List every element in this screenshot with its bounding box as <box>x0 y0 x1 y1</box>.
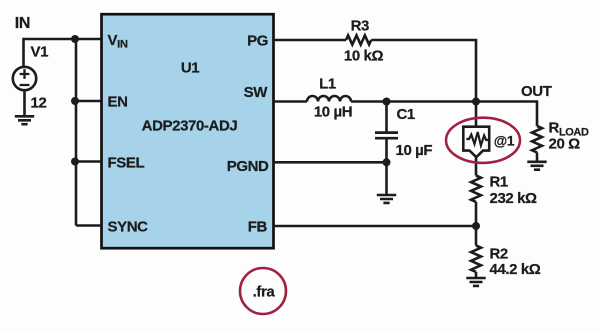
ground R2 <box>466 278 485 286</box>
svg-text:OUT: OUT <box>521 83 552 100</box>
wire L1 to RLOAD corner <box>351 100 537 103</box>
resistor R1 <box>471 176 481 202</box>
junction dot OUT node <box>472 98 480 106</box>
svg-text:@1: @1 <box>494 134 515 149</box>
wire R1 to FB node <box>475 202 478 246</box>
wire FSEL stub <box>76 160 102 163</box>
capacitor C1 <box>375 133 398 139</box>
svg-text:L1: L1 <box>319 76 336 93</box>
wire SYNC stub <box>76 224 102 227</box>
wire corner down to OUT node <box>475 39 478 102</box>
ground C1/PGND <box>377 195 396 203</box>
junction dot FB node <box>472 222 480 230</box>
svg-text:232 kΩ: 232 kΩ <box>490 190 538 207</box>
svg-text:R3: R3 <box>351 18 369 35</box>
wire IN top rail to VIN <box>24 38 102 41</box>
svg-text:10 kΩ: 10 kΩ <box>344 48 384 65</box>
wire OUT corner down to RLOAD <box>536 100 539 126</box>
svg-text:IN: IN <box>15 15 30 32</box>
svg-text:PG: PG <box>247 33 268 50</box>
svg-text:R1: R1 <box>490 174 508 191</box>
wire OUT node down to AC source <box>475 102 478 127</box>
svg-text:V1: V1 <box>31 44 49 61</box>
resistor R2 <box>471 246 481 272</box>
svg-text:U1: U1 <box>181 60 199 77</box>
resistor RLOAD <box>532 126 542 152</box>
AC source waveform <box>466 132 488 146</box>
svg-text:ADP2370-ADJ: ADP2370-ADJ <box>142 118 238 135</box>
wire PGND to C1 node <box>274 161 387 164</box>
junction dot FSEL <box>71 158 79 166</box>
wire EN stub <box>76 100 102 103</box>
red highlight ellipse around @1 source <box>446 118 520 163</box>
junction dot SW/C1 <box>383 98 391 106</box>
svg-text:SYNC: SYNC <box>108 219 149 236</box>
ground V1 <box>15 116 34 124</box>
svg-text:FB: FB <box>248 219 268 236</box>
inductor L1 <box>307 96 351 102</box>
svg-text:20 Ω: 20 Ω <box>549 136 581 153</box>
resistor R3 <box>346 35 371 44</box>
AC injection source @1 box <box>463 127 489 158</box>
svg-text:PGND: PGND <box>227 158 269 175</box>
svg-text:EN: EN <box>108 94 128 111</box>
svg-text:FSEL: FSEL <box>108 155 145 172</box>
wire V1 top vertical <box>22 38 25 67</box>
wire C1 top <box>385 102 388 133</box>
wire R3 to corner <box>371 39 476 42</box>
svg-text:12: 12 <box>31 95 47 112</box>
wire SW to L1 <box>274 100 308 103</box>
op-amp U1 IC body ADP2370-ADJ <box>102 14 274 248</box>
wire left bus <box>75 39 78 226</box>
junction dot EN <box>71 97 79 105</box>
wire C1 bottom to ground <box>385 138 388 195</box>
svg-text:10 µF: 10 µF <box>396 142 433 159</box>
red highlight circle .fra <box>240 268 286 314</box>
junction dot node IN <box>71 35 79 43</box>
wire RLOAD to ground <box>536 152 539 161</box>
wire AC source to R1 <box>475 157 478 175</box>
voltage source V1 <box>13 67 36 90</box>
svg-text:SW: SW <box>244 84 269 101</box>
svg-text:10 µH: 10 µH <box>314 104 352 121</box>
junction dot PGND/C1 <box>383 158 391 166</box>
wire FB <box>274 225 477 228</box>
wire PG to R3 <box>274 39 347 42</box>
svg-text:44.2 kΩ: 44.2 kΩ <box>490 261 541 278</box>
ground RLOAD <box>527 162 546 170</box>
wire V1 bottom <box>23 90 26 116</box>
svg-text:.fra: .fra <box>253 284 276 301</box>
wire R2 to ground <box>475 272 478 278</box>
svg-text:C1: C1 <box>397 106 415 123</box>
